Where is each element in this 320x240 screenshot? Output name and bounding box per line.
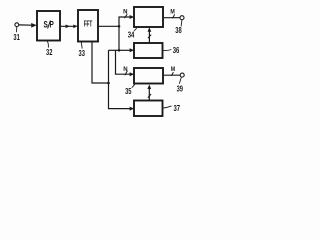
svg-text:38: 38: [175, 26, 182, 35]
label S/P: [44, 20, 54, 30]
leader to label 39: [179, 77, 181, 83]
svg-text:P: P: [49, 20, 53, 30]
bus tick on N wire of 35: [125, 71, 128, 75]
svg-text:33: 33: [79, 49, 86, 58]
terminal 38 circle: [180, 16, 184, 20]
wire left segment from junction (119,50) to corner (108.5,50): [109, 49, 120, 51]
block 37: [134, 101, 163, 117]
bus tick on M wire of 34: [173, 14, 175, 18]
leader to label 37: [163, 106, 172, 108]
svg-text:34: 34: [128, 30, 135, 39]
wire 35 output M to terminal 39: [163, 74, 180, 76]
arrow 37 up to 35: [147, 84, 151, 100]
block 34: [134, 7, 163, 27]
wire up into block 34 with arrowhead (N input): [119, 15, 134, 26]
svg-text:31: 31: [13, 33, 20, 42]
wire junction (119,26) down to junction (119,50): [118, 26, 120, 50]
svg-text:39: 39: [177, 84, 184, 93]
wire FFT right output to junction: [98, 25, 119, 27]
wire descender x=108.5 down then into block 37 with arrowhead: [109, 50, 135, 110]
svg-text:M: M: [171, 67, 175, 73]
svg-text:35: 35: [125, 87, 132, 96]
leader to label 38: [180, 20, 183, 27]
bus tick on arrow 36 to 34: [148, 35, 151, 39]
leader to label 36: [163, 49, 171, 52]
terminal 31 circle: [15, 23, 19, 27]
junction dot at (119,26): [118, 25, 121, 28]
bus tick on arrow 37 to 35: [148, 94, 151, 98]
block 35: [134, 68, 163, 84]
wire FFT bottom output down and right to junction (108.5,83): [92, 42, 109, 84]
block S/P (32): [37, 11, 60, 41]
bus tick on N wire of 34: [124, 14, 127, 18]
svg-text:37: 37: [174, 104, 181, 113]
leader to label 35: [132, 84, 135, 87]
wire input 31 to S/P with arrowhead: [19, 23, 37, 28]
leader to label 33: [81, 42, 82, 49]
leader to label 32: [47, 41, 48, 47]
arrow 36 up to 34: [148, 27, 152, 43]
svg-text:36: 36: [173, 46, 180, 55]
svg-text:N: N: [123, 10, 127, 16]
svg-text:N: N: [123, 67, 127, 73]
leader to label 31: [16, 27, 18, 33]
wire descender x=115.5 down then into block 35 (N input) with arrowhead: [116, 50, 135, 76]
svg-text:FFT: FFT: [84, 20, 93, 29]
wire S/P to FFT with two arrowheads: [60, 25, 78, 29]
svg-text:32: 32: [46, 48, 53, 57]
block FFT (33): [78, 10, 98, 42]
junction dot at (108.5,83): [107, 82, 110, 85]
wire 34 output M to terminal 38: [163, 17, 180, 19]
block 36: [134, 43, 163, 58]
wire into block 36 with arrowhead: [119, 48, 134, 52]
junction dot at (119,50): [118, 49, 121, 52]
leader to label 34: [134, 28, 137, 31]
svg-text:M: M: [170, 10, 174, 16]
terminal 39 circle: [180, 73, 184, 77]
bus tick on M wire of 35: [171, 72, 173, 76]
